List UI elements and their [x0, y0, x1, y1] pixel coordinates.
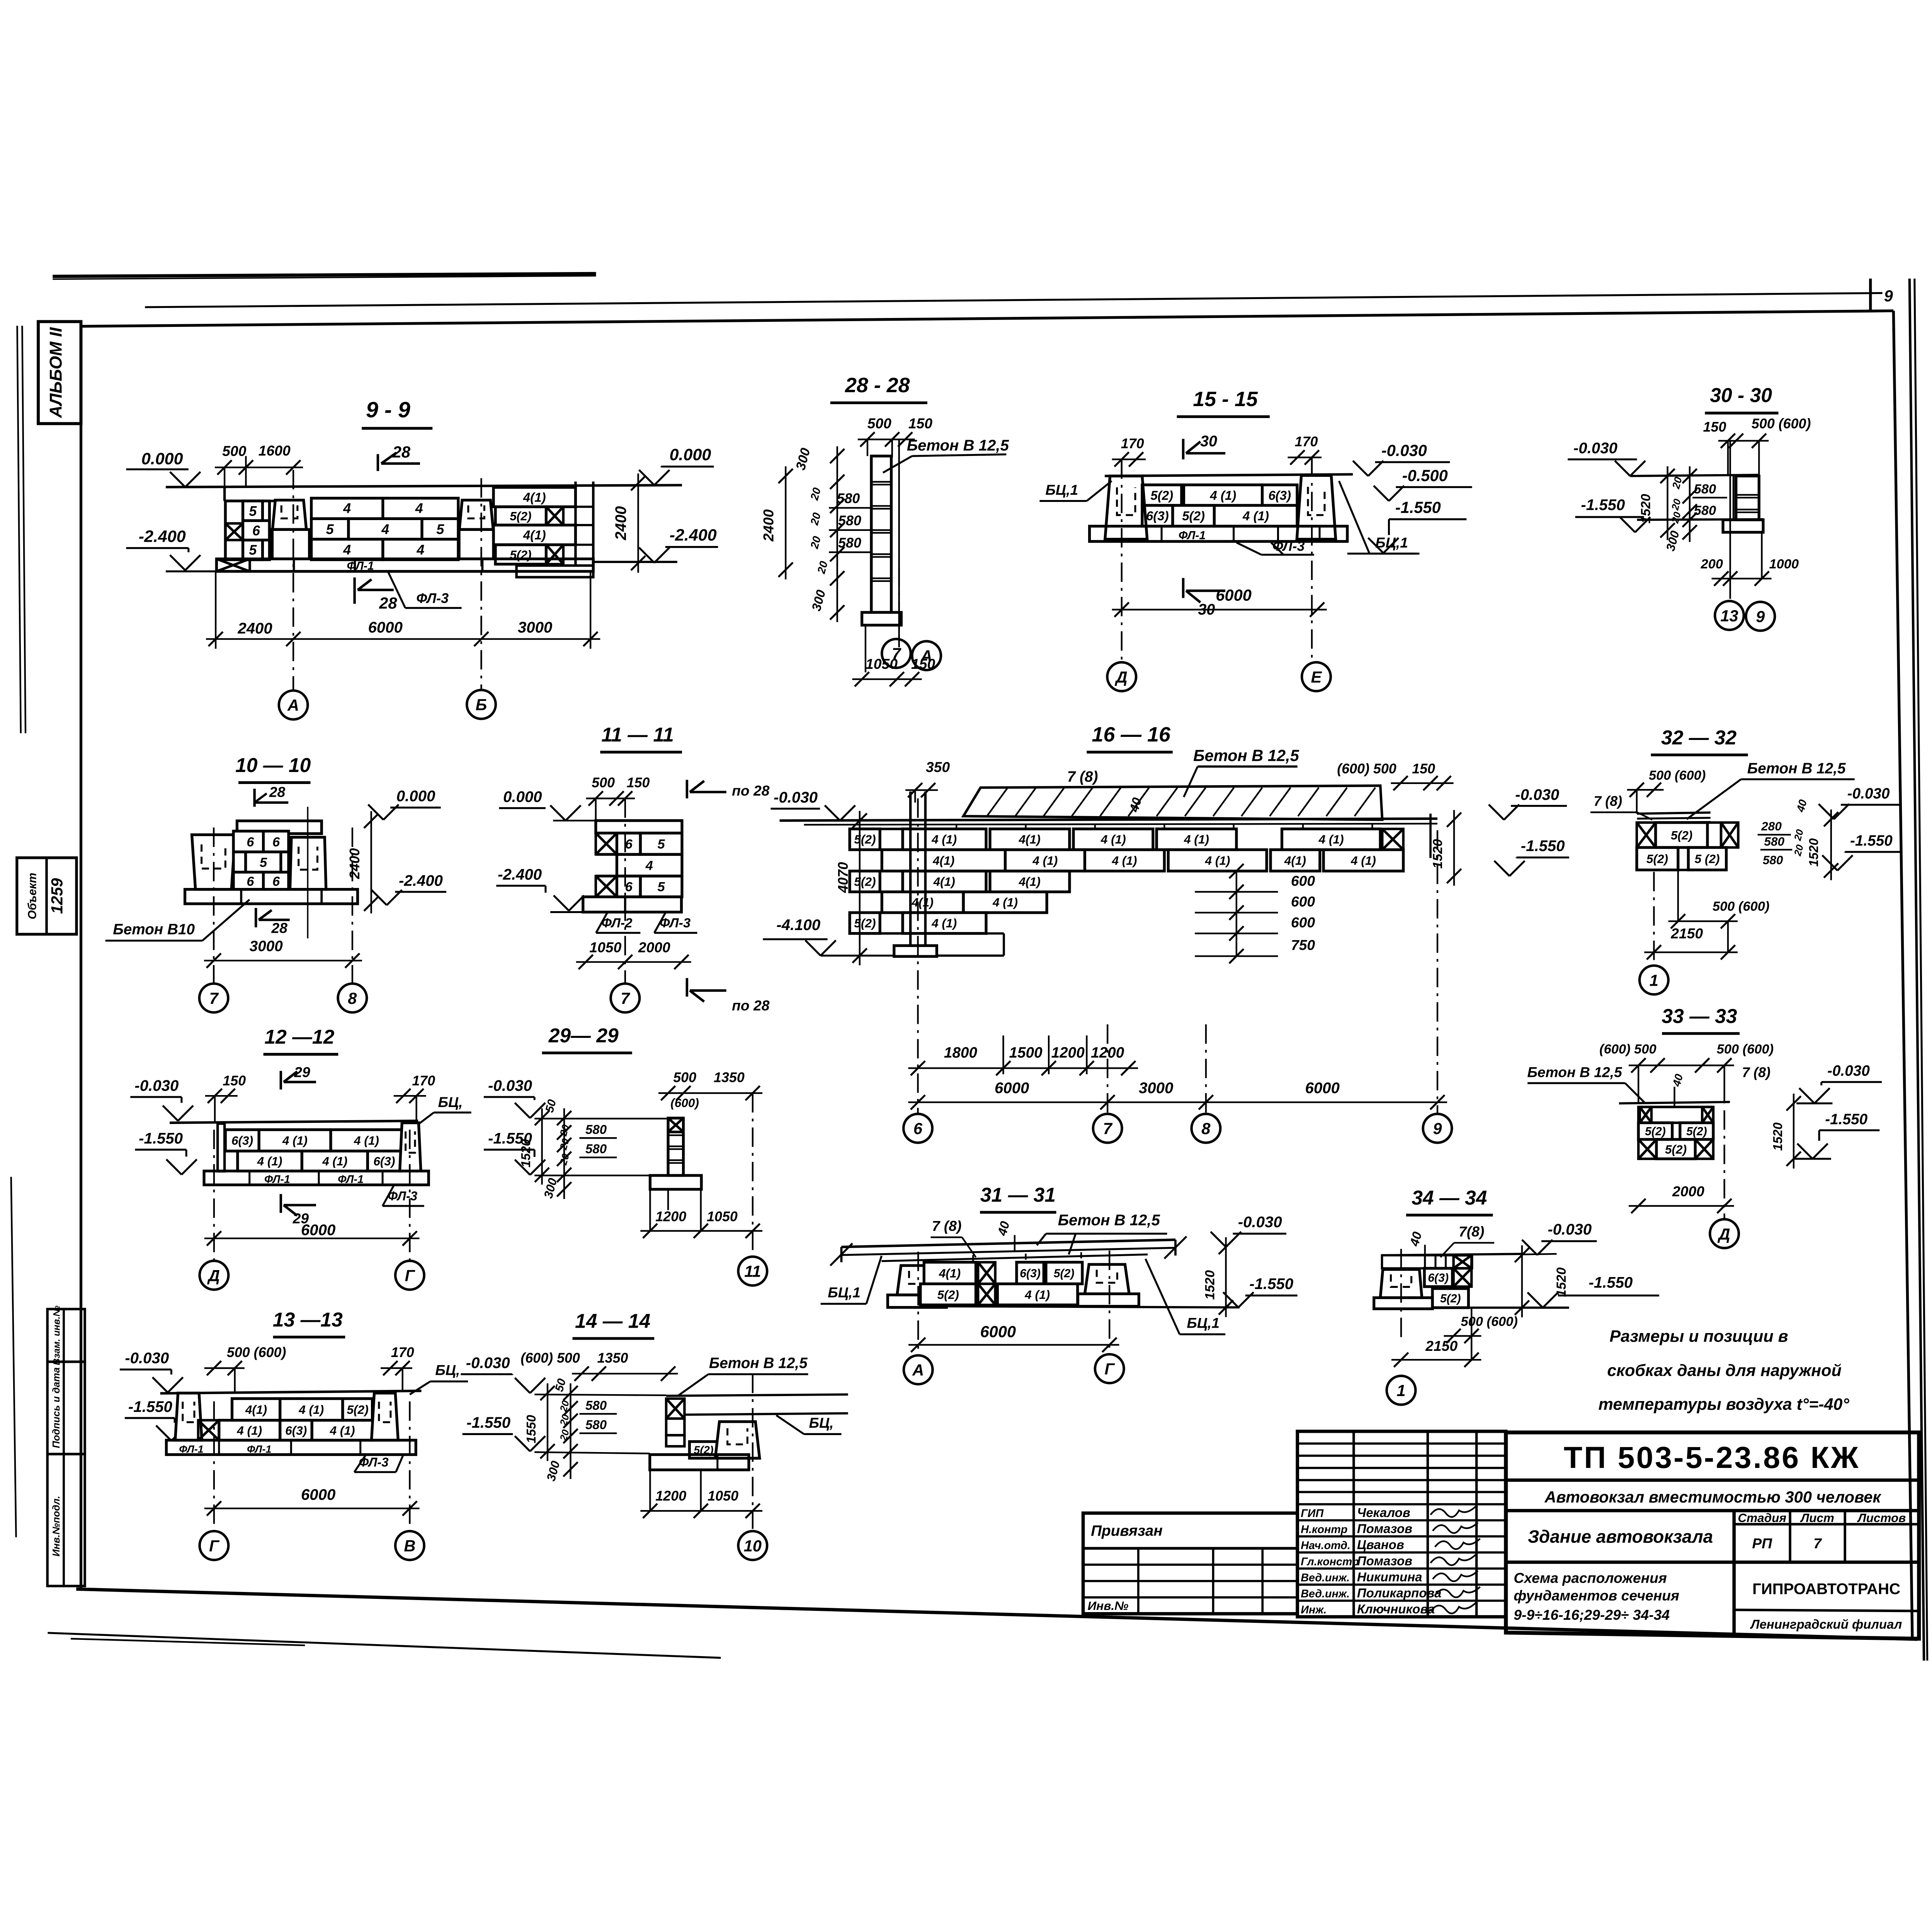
- svg-text:4 (1): 4 (1): [931, 916, 957, 930]
- svg-text:-0.030: -0.030: [1515, 786, 1559, 803]
- svg-text:Бетон В 12,5: Бетон В 12,5: [1747, 760, 1846, 777]
- svg-text:по 28: по 28: [732, 997, 770, 1014]
- svg-text:150: 150: [627, 775, 650, 791]
- svg-text:280: 280: [1761, 819, 1782, 833]
- left scan edge lines: [17, 326, 20, 733]
- svg-text:ФЛ-1: ФЛ-1: [338, 1173, 364, 1185]
- svg-text:-2.400: -2.400: [139, 527, 186, 546]
- svg-text:-0.030: -0.030: [134, 1077, 179, 1094]
- section 34-34 dim 1520: [1521, 1245, 1523, 1318]
- section 31-31 dim 1520: [1225, 1237, 1227, 1317]
- svg-text:5(2): 5(2): [347, 1403, 368, 1417]
- svg-text:ФЛ-1: ФЛ-1: [1179, 529, 1206, 542]
- svg-text:500 (600): 500 (600): [1713, 899, 1769, 914]
- svg-text:Б: Б: [476, 696, 487, 714]
- svg-text:29: 29: [294, 1064, 310, 1080]
- svg-text:Д: Д: [1718, 1225, 1730, 1243]
- svg-text:-0.030: -0.030: [1827, 1063, 1870, 1079]
- section 34-34 body top line: [1382, 1254, 1522, 1255]
- svg-text:Бетон В 12,5: Бетон В 12,5: [1193, 746, 1299, 764]
- svg-text:Инж.: Инж.: [1301, 1604, 1327, 1616]
- section 16-16 roof hatched strip: [963, 786, 1382, 820]
- svg-text:14 — 14: 14 — 14: [575, 1310, 650, 1332]
- svg-text:2000: 2000: [638, 939, 670, 955]
- svg-text:9-9÷16-16;29-29÷ 34-34: 9-9÷16-16;29-29÷ 34-34: [1514, 1607, 1670, 1623]
- section 16-16 slab joint ticks: [955, 825, 957, 829]
- section 9-9 right dim 2400: [637, 473, 639, 573]
- section 15-15 bottom slab: [1090, 526, 1347, 541]
- svg-text:600: 600: [1291, 914, 1315, 930]
- section 33-33 body: [1619, 1102, 1730, 1104]
- svg-text:1200: 1200: [1051, 1044, 1085, 1061]
- svg-text:150: 150: [223, 1073, 246, 1088]
- svg-text:6: 6: [913, 1119, 923, 1138]
- svg-text:6: 6: [247, 835, 254, 849]
- svg-text:1050: 1050: [707, 1209, 738, 1224]
- svg-text:13 —13: 13 —13: [273, 1308, 343, 1331]
- section 31-31 right pier: [1085, 1264, 1129, 1294]
- section 31-31 bottom level line: [946, 1306, 1239, 1308]
- svg-text:4 (1): 4 (1): [322, 1154, 347, 1168]
- svg-text:ГИПРОАВТОТРАНС: ГИПРОАВТОТРАНС: [1752, 1580, 1900, 1597]
- svg-text:500 (600): 500 (600): [227, 1345, 286, 1360]
- svg-text:500: 500: [592, 775, 615, 791]
- svg-text:Бетон В 12,5: Бетон В 12,5: [1058, 1211, 1160, 1229]
- section 13-13 axis G: [213, 1401, 215, 1531]
- section 34-34 level line -1.550: [1432, 1306, 1569, 1309]
- svg-text:170: 170: [1121, 436, 1144, 451]
- svg-text:4 (1): 4 (1): [1205, 854, 1230, 867]
- svg-text:6(3): 6(3): [285, 1423, 307, 1437]
- svg-text:6(3): 6(3): [373, 1154, 395, 1168]
- section 13-13 body: [160, 1391, 422, 1393]
- svg-text:6: 6: [272, 874, 280, 889]
- svg-text:1350: 1350: [597, 1350, 628, 1366]
- svg-text:4(1): 4(1): [1019, 874, 1041, 888]
- svg-text:7: 7: [1813, 1535, 1822, 1551]
- title block main frame: [1506, 1432, 1919, 1639]
- svg-text:600: 600: [1291, 872, 1315, 889]
- signature table: [1298, 1431, 1506, 1617]
- svg-text:Бетон В 12,5: Бетон В 12,5: [907, 437, 1009, 454]
- svg-text:4(1): 4(1): [939, 1266, 961, 1280]
- svg-text:Е: Е: [1311, 668, 1322, 686]
- svg-text:4(1): 4(1): [523, 528, 546, 542]
- svg-text:16 — 16: 16 — 16: [1092, 723, 1171, 746]
- section 29-29 wall: [668, 1118, 683, 1176]
- svg-text:-0.030: -0.030: [125, 1349, 169, 1367]
- svg-text:13: 13: [1720, 607, 1738, 625]
- svg-text:-0.030: -0.030: [774, 789, 818, 806]
- svg-text:750: 750: [1291, 937, 1315, 953]
- section 10-10 top slab: [237, 821, 321, 833]
- svg-text:170: 170: [1295, 434, 1318, 449]
- svg-text:150: 150: [1412, 761, 1435, 777]
- svg-text:4: 4: [343, 542, 351, 558]
- svg-text:-4.100: -4.100: [776, 916, 820, 934]
- section 16-16 block row 4: [882, 892, 963, 913]
- svg-text:5: 5: [249, 503, 257, 519]
- svg-text:4 (1): 4 (1): [1032, 854, 1058, 867]
- svg-text:10 — 10: 10 — 10: [235, 754, 311, 776]
- svg-text:28: 28: [392, 443, 411, 461]
- svg-text:6: 6: [272, 835, 280, 849]
- svg-text:ФЛ-3: ФЛ-3: [660, 916, 690, 930]
- svg-text:ФЛ-1: ФЛ-1: [247, 1443, 272, 1455]
- section 10-10 axis 8: [351, 828, 354, 983]
- section 9-9 bottom slab FL-1: [216, 559, 593, 571]
- section 9-9 axis B: [480, 478, 483, 690]
- svg-text:А: А: [287, 696, 299, 714]
- section 11-11 axis 7: [624, 798, 626, 983]
- svg-text:5(2): 5(2): [1151, 488, 1173, 503]
- section 31-31 left pier: [897, 1265, 942, 1295]
- svg-text:В: В: [404, 1537, 415, 1555]
- section 16-16 axis 7: [1106, 1024, 1109, 1114]
- svg-text:ФЛ-2: ФЛ-2: [601, 916, 632, 930]
- svg-text:200: 200: [1701, 557, 1723, 571]
- svg-text:1000: 1000: [1769, 557, 1799, 571]
- svg-text:6000: 6000: [368, 619, 403, 636]
- svg-text:по 28: по 28: [732, 782, 770, 799]
- svg-text:10: 10: [744, 1537, 762, 1555]
- stamp column inv n podl: [48, 1454, 85, 1586]
- svg-text:5: 5: [658, 880, 665, 895]
- svg-text:1520: 1520: [1806, 838, 1821, 867]
- section 32-32 right dims: [1830, 810, 1832, 880]
- svg-text:2400: 2400: [237, 619, 272, 637]
- svg-text:-1.550: -1.550: [1581, 496, 1625, 514]
- svg-text:28: 28: [269, 784, 286, 800]
- svg-text:5: 5: [249, 543, 257, 558]
- section 14-14 body: [666, 1395, 848, 1396]
- svg-text:8: 8: [1201, 1119, 1211, 1138]
- svg-text:Цванов: Цванов: [1357, 1537, 1404, 1552]
- object label box: [17, 858, 77, 934]
- svg-text:6(3): 6(3): [1428, 1272, 1449, 1284]
- svg-text:4 (1): 4 (1): [1210, 488, 1236, 503]
- svg-text:4 (1): 4 (1): [282, 1133, 308, 1147]
- svg-text:6000: 6000: [301, 1221, 335, 1238]
- svg-text:4(1): 4(1): [1284, 854, 1306, 867]
- svg-text:5: 5: [260, 855, 267, 870]
- section 31-31 axis G: [1108, 1250, 1111, 1353]
- svg-text:ФЛ-3: ФЛ-3: [1272, 539, 1305, 554]
- svg-text:500: 500: [867, 415, 891, 431]
- svg-text:580: 580: [838, 535, 861, 551]
- svg-text:8: 8: [348, 989, 357, 1007]
- svg-text:А: А: [912, 1361, 924, 1379]
- section 33-33 dim 1520: [1793, 1094, 1795, 1168]
- svg-text:5 (2): 5 (2): [1695, 852, 1720, 866]
- svg-text:170: 170: [391, 1345, 414, 1360]
- svg-text:6(3): 6(3): [1020, 1267, 1041, 1280]
- svg-text:4(1): 4(1): [932, 854, 954, 867]
- svg-text:500 (600): 500 (600): [1752, 416, 1811, 431]
- svg-text:4(1): 4(1): [1019, 832, 1041, 846]
- svg-text:29— 29: 29— 29: [548, 1024, 619, 1047]
- svg-text:4: 4: [343, 500, 351, 516]
- section 31-31 dim 6000: [908, 1344, 1119, 1346]
- svg-text:350: 350: [926, 759, 950, 775]
- section 10-10 cut mark 28 bottom: [254, 908, 258, 927]
- svg-text:-2.400: -2.400: [498, 866, 542, 883]
- svg-text:30: 30: [1200, 433, 1217, 450]
- svg-text:4(1): 4(1): [912, 895, 934, 909]
- svg-text:5(2): 5(2): [1182, 509, 1205, 523]
- svg-text:-1.550: -1.550: [128, 1398, 172, 1415]
- svg-text:5(2): 5(2): [510, 509, 531, 523]
- section 16-16 block row 5: [850, 913, 880, 934]
- svg-text:1050: 1050: [707, 1488, 738, 1504]
- svg-text:Д: Д: [1115, 668, 1128, 686]
- svg-text:Привязан: Привязан: [1091, 1523, 1163, 1539]
- svg-text:Инв.№: Инв.№: [1088, 1599, 1129, 1612]
- section 32-32 body: [1637, 813, 1711, 814]
- section 9-9 right pier: [459, 500, 493, 529]
- svg-text:(600): (600): [670, 1096, 699, 1110]
- svg-text:580: 580: [1694, 482, 1716, 497]
- section 14-14 axis 10: [752, 1374, 754, 1529]
- section 9-9 right edge strip: [574, 481, 577, 565]
- section 28-28 wall column: [871, 456, 891, 612]
- svg-text:-1.550: -1.550: [139, 1130, 183, 1147]
- title block project name row: [1506, 1508, 1919, 1513]
- title block TP number box: [1506, 1478, 1919, 1483]
- svg-text:-0.500: -0.500: [1402, 466, 1448, 485]
- svg-text:-0.030: -0.030: [488, 1077, 532, 1094]
- section 34-34 axis 1: [1400, 1249, 1402, 1343]
- svg-text:1050: 1050: [589, 939, 621, 955]
- svg-text:-1.550: -1.550: [1825, 1111, 1867, 1128]
- section 10-10 cut mark 28 top: [253, 789, 256, 807]
- svg-text:Чекалов: Чекалов: [1357, 1505, 1410, 1520]
- svg-text:4070: 4070: [835, 862, 851, 893]
- svg-text:1520: 1520: [519, 1139, 533, 1167]
- svg-text:4 (1): 4 (1): [1100, 832, 1126, 846]
- svg-text:-1.550: -1.550: [1521, 837, 1565, 855]
- svg-text:6(3): 6(3): [1146, 509, 1169, 523]
- section 11-11 cut mark po28 top: [685, 780, 689, 798]
- section 16-16 dim 6000 3000 6000: [908, 1101, 1447, 1104]
- section 16-16 axis 8: [1205, 1024, 1207, 1114]
- section 34-34 pier: [1380, 1269, 1422, 1298]
- svg-text:7: 7: [209, 989, 219, 1007]
- svg-text:Размеры и позиции в: Размеры и позиции в: [1610, 1327, 1788, 1346]
- svg-text:5(2): 5(2): [1665, 1142, 1687, 1156]
- svg-text:500: 500: [673, 1070, 696, 1085]
- section 15-15 body top line: [1105, 474, 1353, 476]
- svg-text:А: А: [920, 647, 932, 665]
- svg-text:температуры воздуха t°=-40°: температуры воздуха t°=-40°: [1599, 1395, 1850, 1413]
- svg-text:ФЛ-1: ФЛ-1: [347, 560, 374, 572]
- svg-text:2150: 2150: [1670, 925, 1703, 942]
- svg-text:БЦ,1: БЦ,1: [1046, 482, 1078, 498]
- svg-text:Д: Д: [207, 1266, 220, 1284]
- svg-text:ТП 503-5-23.86 КЖ: ТП 503-5-23.86 КЖ: [1564, 1440, 1860, 1475]
- svg-text:2400: 2400: [347, 848, 362, 879]
- svg-text:9: 9: [1756, 607, 1765, 626]
- svg-text:4 (1): 4 (1): [298, 1403, 324, 1417]
- svg-text:6: 6: [252, 523, 260, 538]
- svg-text:-1.550: -1.550: [1850, 832, 1893, 849]
- svg-text:7: 7: [621, 989, 630, 1007]
- svg-text:2150: 2150: [1425, 1338, 1458, 1354]
- svg-text:Вед.инж.: Вед.инж.: [1301, 1571, 1350, 1584]
- svg-text:Г: Г: [405, 1266, 416, 1284]
- svg-text:4 (1): 4 (1): [992, 895, 1018, 909]
- section 31-31 row1 blocks: [924, 1262, 976, 1284]
- section 11-11 cut mark po28 bottom: [685, 978, 689, 997]
- svg-text:Автовокзал вместимостью 300 че: Автовокзал вместимостью 300 человек: [1544, 1488, 1881, 1506]
- svg-text:Стадия: Стадия: [1738, 1511, 1786, 1525]
- section 10-10 dim 3000: [204, 959, 362, 962]
- svg-text:5(2): 5(2): [1671, 828, 1692, 842]
- svg-text:4 (1): 4 (1): [236, 1423, 262, 1437]
- svg-text:5(2): 5(2): [937, 1287, 959, 1301]
- section 15-15 cut mark 30 top: [1182, 439, 1185, 459]
- svg-text:7: 7: [892, 645, 901, 663]
- svg-text:Ключникова: Ключникова: [1357, 1602, 1435, 1616]
- svg-text:580: 580: [585, 1398, 607, 1412]
- svg-text:Помазов: Помазов: [1357, 1554, 1412, 1568]
- section 16-16 left column: [909, 791, 912, 946]
- svg-text:4 (1): 4 (1): [931, 832, 957, 846]
- svg-text:7 (8): 7 (8): [1742, 1065, 1770, 1080]
- section 32-32 axis 1: [1653, 872, 1655, 963]
- section 34-34 top band: [1382, 1255, 1472, 1269]
- svg-text:7 (8): 7 (8): [1594, 794, 1622, 809]
- section 10-10 left pier: [192, 835, 235, 889]
- section 33-33 axis D: [1723, 1110, 1726, 1218]
- svg-text:4 (1): 4 (1): [1350, 854, 1376, 867]
- section 29-29 footing: [650, 1175, 701, 1189]
- svg-text:4 (1): 4 (1): [257, 1154, 282, 1168]
- section 16-16 main slab line: [780, 819, 1438, 821]
- svg-text:5: 5: [436, 522, 444, 537]
- svg-text:-2.400: -2.400: [399, 872, 443, 889]
- svg-text:Лист: Лист: [1800, 1511, 1834, 1525]
- section 13-13 dim 6000: [204, 1507, 420, 1510]
- section 9-9 left pier pedestal: [272, 529, 310, 559]
- svg-text:-0.030: -0.030: [1548, 1221, 1592, 1238]
- svg-text:33 — 33: 33 — 33: [1662, 1005, 1737, 1027]
- svg-text:500 (600): 500 (600): [1717, 1042, 1774, 1056]
- svg-text:Бетон В 12,5: Бетон В 12,5: [1527, 1064, 1622, 1080]
- section 31-31 beam: [842, 1240, 1176, 1247]
- section 9-9 cut mark 28 bottom: [353, 577, 356, 604]
- svg-text:580: 580: [585, 1418, 607, 1432]
- svg-text:Объект: Объект: [26, 873, 39, 920]
- svg-text:28: 28: [271, 920, 287, 936]
- section 9-9 middle blocks: [311, 498, 458, 519]
- title block stadia list listov header: [1734, 1522, 1919, 1526]
- svg-text:ГИП: ГИП: [1301, 1507, 1324, 1520]
- section 16-16 axis 6: [917, 798, 919, 1114]
- section 12-12 dim 6000: [204, 1237, 420, 1240]
- svg-text:4: 4: [645, 858, 653, 873]
- svg-text:1259: 1259: [48, 878, 66, 914]
- section 9-9 right block stack: [493, 487, 575, 507]
- section 15-15 right pier: [1297, 475, 1335, 539]
- album label box: [38, 321, 81, 423]
- section 16-16 block row 3: [850, 871, 880, 892]
- section 10-10 cut trace line 28: [307, 807, 309, 939]
- svg-text:(600) 500: (600) 500: [520, 1350, 580, 1366]
- section 31-31 row2 blocks: [920, 1284, 976, 1305]
- svg-text:580: 580: [1764, 834, 1784, 848]
- svg-text:Бетон В10: Бетон В10: [113, 921, 195, 938]
- svg-text:5(2): 5(2): [854, 874, 876, 888]
- section 15-15 axis E: [1311, 457, 1313, 661]
- page number box 9: [1869, 279, 1872, 311]
- section 15-15 left pier: [1105, 476, 1147, 539]
- svg-text:31 — 31: 31 — 31: [980, 1184, 1056, 1206]
- section 9-9 cut mark 28 top: [376, 454, 379, 471]
- svg-text:0.000: 0.000: [503, 788, 542, 806]
- svg-text:0.000: 0.000: [670, 446, 711, 464]
- privyazan table: [1083, 1513, 1298, 1614]
- svg-text:3000: 3000: [250, 938, 283, 955]
- svg-text:БЦ,: БЦ,: [438, 1094, 463, 1110]
- svg-text:5(2): 5(2): [1054, 1267, 1075, 1280]
- section 28-28 footing: [862, 612, 901, 625]
- svg-text:4: 4: [415, 500, 423, 516]
- section 11-11 bottom slab: [583, 897, 682, 912]
- svg-text:5: 5: [658, 837, 665, 852]
- svg-text:Гл.констр: Гл.констр: [1301, 1556, 1359, 1568]
- svg-text:0.000: 0.000: [141, 450, 183, 468]
- svg-text:6000: 6000: [1216, 586, 1252, 604]
- title block building name cell: [1506, 1560, 1919, 1565]
- svg-text:9: 9: [1433, 1119, 1442, 1138]
- svg-text:Бетон В 12,5: Бетон В 12,5: [709, 1355, 808, 1372]
- section 31-31 beam lower joint line: [882, 1255, 1148, 1261]
- svg-text:150: 150: [908, 415, 932, 431]
- section 9-9 axis A: [292, 470, 294, 690]
- svg-text:6000: 6000: [1305, 1079, 1340, 1097]
- svg-text:5(2): 5(2): [1646, 852, 1668, 866]
- section 15-15 axis D: [1121, 459, 1123, 662]
- svg-text:5(2): 5(2): [854, 832, 876, 846]
- svg-text:1800: 1800: [944, 1044, 978, 1061]
- svg-text:Взам. инв.№: Взам. инв.№: [51, 1306, 62, 1365]
- svg-text:3000: 3000: [518, 619, 552, 636]
- svg-text:6: 6: [625, 837, 633, 852]
- svg-text:Инв.№подл.: Инв.№подл.: [51, 1496, 62, 1556]
- svg-text:БЦ,: БЦ,: [435, 1362, 460, 1378]
- svg-text:Поликарпова: Поликарпова: [1357, 1586, 1441, 1600]
- svg-text:1500: 1500: [1009, 1044, 1043, 1061]
- title block org cell: [1734, 1610, 1919, 1611]
- svg-text:1200: 1200: [655, 1209, 686, 1224]
- section 28-28 axis line: [898, 439, 900, 567]
- svg-text:ФЛ-3: ФЛ-3: [416, 590, 449, 606]
- section 15-15 block rows: [1142, 485, 1182, 505]
- svg-text:1520: 1520: [1554, 1267, 1569, 1297]
- svg-text:5(2): 5(2): [854, 916, 876, 930]
- svg-text:11: 11: [744, 1262, 761, 1281]
- svg-text:4(1): 4(1): [245, 1403, 267, 1417]
- svg-text:7(8): 7(8): [1459, 1223, 1484, 1240]
- svg-text:11 — 11: 11 — 11: [601, 723, 674, 746]
- svg-text:4 (1): 4 (1): [1184, 832, 1209, 846]
- svg-text:150: 150: [1703, 419, 1726, 435]
- svg-text:30 - 30: 30 - 30: [1710, 384, 1772, 406]
- section 11-11 wall blocks: [596, 819, 682, 822]
- svg-text:6000: 6000: [980, 1322, 1016, 1340]
- svg-text:600: 600: [1291, 893, 1315, 910]
